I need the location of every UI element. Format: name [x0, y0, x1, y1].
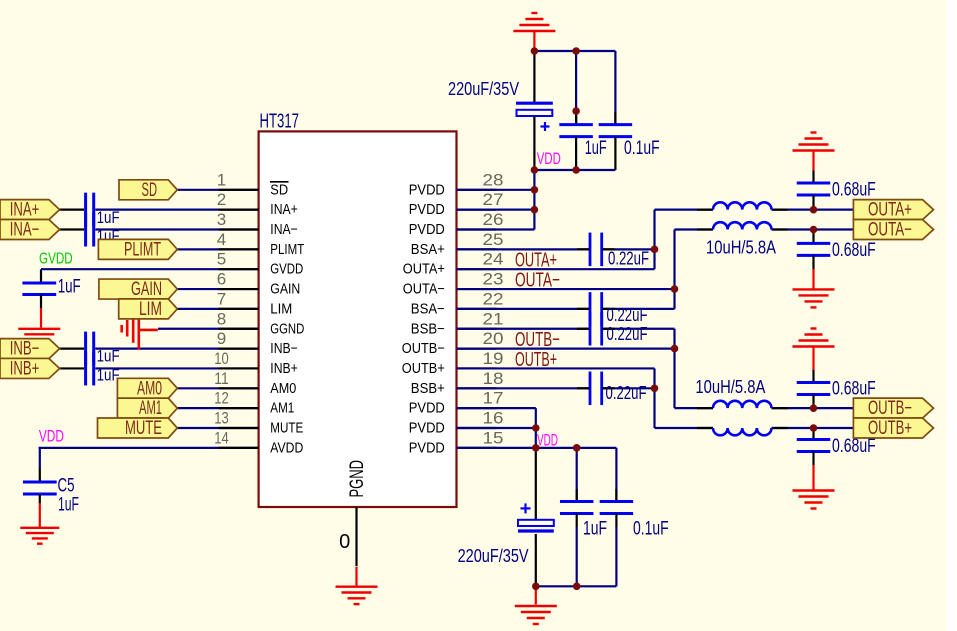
svg-text:LIM: LIM — [139, 299, 162, 320]
svg-text:INB−: INB− — [270, 341, 298, 357]
svg-text:VDD: VDD — [39, 426, 64, 445]
svg-text:220uF/35V: 220uF/35V — [448, 79, 519, 99]
svg-text:PVDD: PVDD — [409, 222, 445, 238]
svg-text:13: 13 — [214, 409, 229, 428]
svg-text:GAIN: GAIN — [270, 282, 300, 298]
svg-text:LIM: LIM — [270, 301, 292, 317]
svg-text:18: 18 — [483, 369, 504, 388]
svg-text:VDD: VDD — [537, 431, 558, 450]
svg-text:OUTA−: OUTA− — [403, 282, 445, 298]
svg-text:21: 21 — [483, 309, 504, 328]
svg-text:24: 24 — [483, 250, 504, 269]
svg-text:4: 4 — [217, 230, 226, 249]
svg-text:OUTA−: OUTA− — [515, 269, 560, 292]
svg-text:AM0: AM0 — [270, 381, 296, 397]
svg-text:GGND: GGND — [270, 321, 304, 337]
svg-text:0.22uF: 0.22uF — [606, 383, 647, 403]
svg-text:8: 8 — [217, 309, 226, 328]
svg-text:6: 6 — [217, 270, 226, 289]
svg-text:1uF: 1uF — [58, 495, 79, 516]
svg-text:INA+: INA+ — [10, 200, 40, 221]
svg-text:14: 14 — [214, 428, 229, 447]
svg-text:BSA+: BSA+ — [411, 242, 445, 258]
svg-text:PLIMT: PLIMT — [124, 239, 161, 260]
svg-text:22: 22 — [483, 289, 504, 308]
svg-text:26: 26 — [483, 210, 504, 229]
svg-text:PVDD: PVDD — [409, 182, 445, 198]
svg-text:5: 5 — [217, 250, 226, 269]
svg-text:AVDD: AVDD — [270, 440, 303, 456]
svg-text:7: 7 — [217, 289, 226, 308]
svg-text:C5: C5 — [58, 476, 75, 497]
svg-text:HT317: HT317 — [260, 111, 300, 133]
svg-text:25: 25 — [483, 230, 504, 249]
svg-text:11: 11 — [214, 369, 229, 388]
svg-text:MUTE: MUTE — [270, 421, 303, 437]
svg-text:2: 2 — [217, 190, 226, 209]
svg-text:INB+: INB+ — [270, 361, 298, 377]
svg-text:OUTB+: OUTB+ — [868, 418, 912, 439]
svg-text:OUTB−: OUTB− — [868, 398, 912, 419]
svg-text:27: 27 — [483, 190, 504, 209]
svg-text:0.22uF: 0.22uF — [608, 249, 649, 269]
svg-text:1uF: 1uF — [97, 347, 120, 366]
svg-text:SD: SD — [270, 182, 288, 198]
svg-text:1uF: 1uF — [97, 208, 120, 227]
svg-text:OUTA+: OUTA+ — [403, 262, 445, 278]
svg-text:INB+: INB+ — [10, 358, 40, 379]
svg-text:OUTB+: OUTB+ — [402, 361, 445, 377]
svg-text:INA−: INA− — [270, 222, 298, 238]
svg-text:1: 1 — [217, 170, 226, 189]
svg-text:GVDD: GVDD — [270, 262, 303, 278]
svg-text:OUTB+: OUTB+ — [515, 348, 557, 371]
svg-text:PGND: PGND — [347, 460, 368, 498]
svg-text:12: 12 — [214, 389, 229, 408]
svg-text:0.1uF: 0.1uF — [624, 138, 660, 159]
svg-text:OUTA−: OUTA− — [868, 220, 912, 241]
svg-text:INB−: INB− — [10, 339, 40, 360]
svg-text:PLIMT: PLIMT — [270, 242, 304, 258]
svg-text:0.68uF: 0.68uF — [832, 240, 876, 261]
svg-text:INA+: INA+ — [270, 202, 298, 218]
svg-text:17: 17 — [483, 389, 504, 408]
svg-text:VDD: VDD — [537, 149, 561, 168]
svg-text:PVDD: PVDD — [409, 202, 445, 218]
svg-text:19: 19 — [483, 349, 504, 368]
svg-text:AM1: AM1 — [139, 398, 162, 419]
svg-text:10uH/5.8A: 10uH/5.8A — [695, 377, 765, 397]
svg-text:BSB+: BSB+ — [411, 381, 445, 397]
svg-text:1uF: 1uF — [58, 276, 81, 297]
svg-text:GVDD: GVDD — [39, 251, 73, 268]
svg-text:0.22uF: 0.22uF — [607, 324, 648, 344]
svg-text:23: 23 — [483, 270, 504, 289]
svg-text:220uF/35V: 220uF/35V — [458, 546, 529, 566]
svg-text:0: 0 — [339, 531, 350, 553]
svg-text:MUTE: MUTE — [125, 418, 162, 439]
svg-text:AM1: AM1 — [270, 401, 294, 417]
svg-text:AM0: AM0 — [137, 378, 162, 399]
svg-text:16: 16 — [483, 409, 504, 428]
svg-text:1uF: 1uF — [585, 138, 607, 159]
svg-text:GAIN: GAIN — [131, 279, 162, 300]
svg-text:10: 10 — [214, 349, 229, 368]
svg-text:PVDD: PVDD — [409, 401, 445, 417]
svg-text:20: 20 — [483, 329, 504, 348]
svg-text:PVDD: PVDD — [409, 440, 445, 456]
svg-text:OUTA+: OUTA+ — [868, 200, 912, 221]
svg-text:PVDD: PVDD — [409, 421, 445, 437]
svg-text:0.22uF: 0.22uF — [607, 305, 648, 325]
svg-text:0.1uF: 0.1uF — [633, 519, 669, 540]
svg-text:OUTB−: OUTB− — [402, 341, 445, 357]
svg-text:9: 9 — [217, 329, 226, 348]
svg-text:BSA−: BSA− — [411, 301, 445, 317]
svg-text:28: 28 — [483, 170, 504, 189]
svg-text:10uH/5.8A: 10uH/5.8A — [706, 238, 776, 258]
svg-text:0.68uF: 0.68uF — [832, 180, 876, 201]
svg-text:0.68uF: 0.68uF — [832, 379, 876, 400]
svg-text:SD: SD — [142, 180, 158, 201]
svg-text:1uF: 1uF — [97, 366, 120, 385]
svg-text:0.68uF: 0.68uF — [832, 436, 876, 457]
svg-text:15: 15 — [483, 428, 504, 447]
svg-text:BSB−: BSB− — [411, 321, 445, 337]
svg-text:1uF: 1uF — [583, 519, 607, 540]
svg-text:INA−: INA− — [10, 220, 40, 241]
svg-text:3: 3 — [217, 210, 226, 229]
